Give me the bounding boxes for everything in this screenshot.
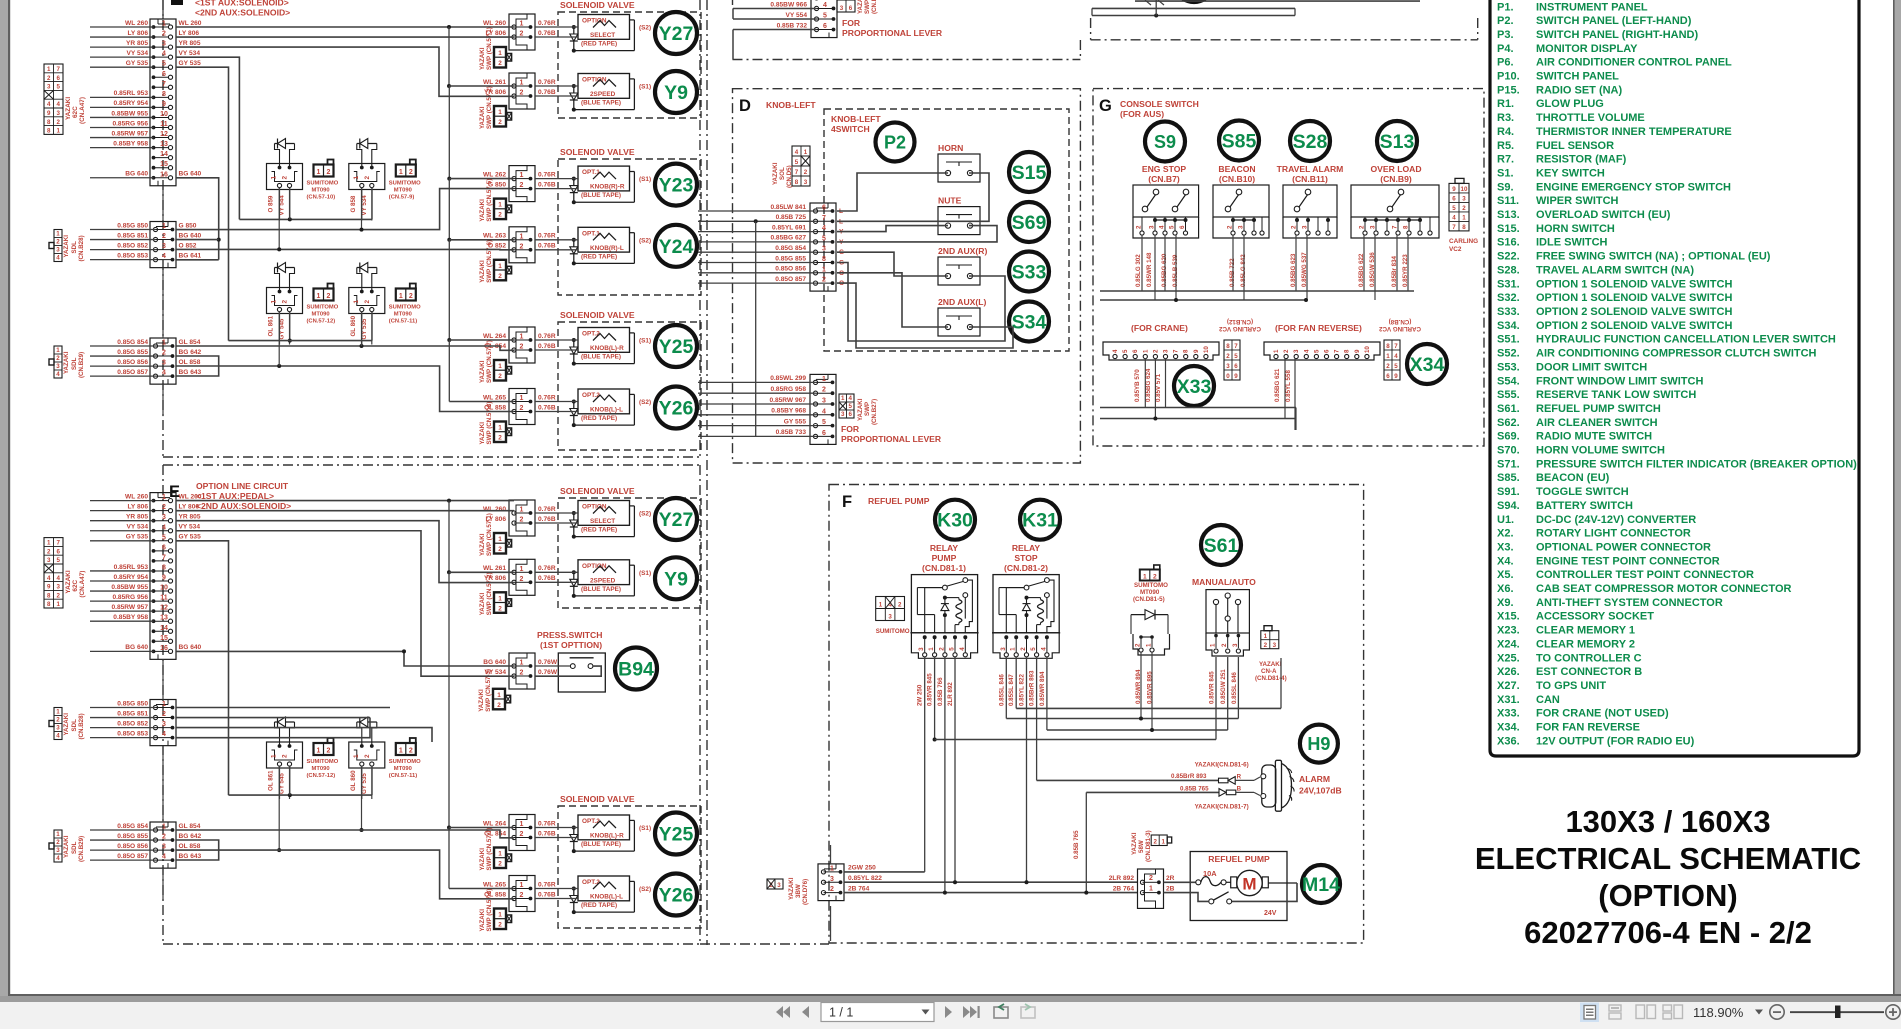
svg-text:B94: B94: [618, 659, 654, 681]
svg-text:1: 1: [56, 709, 60, 716]
svg-text:(CN.D76): (CN.D76): [802, 879, 809, 905]
svg-text:4: 4: [1040, 647, 1047, 651]
svg-text:S33.: S33.: [1497, 306, 1520, 318]
svg-text:2LR 892: 2LR 892: [947, 682, 954, 706]
svg-text:1: 1: [1273, 349, 1280, 353]
svg-text:OVERLOAD SWITCH (EU): OVERLOAD SWITCH (EU): [1536, 209, 1671, 221]
connector strip FOR FAN REVERSE: [1264, 342, 1380, 360]
svg-text:Y24: Y24: [659, 236, 694, 258]
svg-text:WL 263: WL 263: [483, 233, 506, 240]
solenoid valve circle Y9: [655, 71, 697, 113]
svg-text:2: 2: [47, 548, 51, 555]
connector strip FOR CRANE: [1103, 342, 1219, 360]
svg-text:1: 1: [1143, 573, 1147, 580]
relay K30: [911, 575, 977, 633]
svg-text:6: 6: [1324, 349, 1331, 353]
svg-text:1: 1: [520, 566, 524, 573]
svg-text:3: 3: [1273, 642, 1277, 649]
svg-text:7: 7: [57, 540, 61, 547]
knob-left inner dashed box: [824, 109, 1069, 351]
svg-text:Y25: Y25: [659, 336, 694, 358]
wire valve feed Y25: [535, 827, 578, 829]
svg-text:0.76W: 0.76W: [538, 669, 558, 676]
svg-text:YR 805: YR 805: [126, 514, 148, 521]
svg-text:1: 1: [520, 660, 524, 667]
svg-text:KNOB(R)-L: KNOB(R)-L: [590, 245, 624, 252]
svg-text:S51.: S51.: [1497, 334, 1520, 346]
svg-text:0: 0: [1226, 373, 1230, 380]
svg-text:3: 3: [1000, 647, 1007, 651]
svg-text:GY 535: GY 535: [126, 60, 149, 67]
solenoid valve circle Y9: [655, 557, 697, 599]
svg-text:TO GPS UNIT: TO GPS UNIT: [1536, 680, 1606, 692]
svg-text:5: 5: [1452, 205, 1456, 212]
svg-text:5: 5: [849, 403, 853, 410]
svg-text:X5.: X5.: [1497, 569, 1514, 581]
svg-text:5: 5: [1394, 363, 1398, 370]
connector CN.A47 16-pin section E: [150, 493, 176, 660]
svg-text:1: 1: [497, 692, 501, 699]
toolbar nav last-page button: [963, 1006, 970, 1018]
svg-text:0.76R: 0.76R: [538, 20, 556, 27]
svg-text:(RED TAPE): (RED TAPE): [581, 527, 617, 534]
wire bus y730: [1047, 729, 1228, 731]
svg-text:10: 10: [1203, 346, 1210, 353]
svg-text:S69.: S69.: [1497, 431, 1520, 443]
solenoid valve Y27: [578, 15, 630, 40]
svg-text:12V OUTPUT (FOR RADIO EU): 12V OUTPUT (FOR RADIO EU): [1536, 735, 1695, 747]
svg-text:0.85BY 958: 0.85BY 958: [113, 614, 148, 621]
toolbar page number box: [821, 1003, 934, 1022]
svg-text:0.85B 732: 0.85B 732: [777, 22, 808, 29]
svg-text:LY 806: LY 806: [127, 30, 148, 37]
svg-text:1: 1: [162, 21, 166, 28]
svg-text:BEACON: BEACON: [1218, 164, 1255, 174]
yazaki SWP CN.B27 symbol: [839, 394, 854, 418]
svg-text:WL 265: WL 265: [483, 881, 506, 888]
svg-text:S34: S34: [1012, 312, 1047, 334]
wires CN.D5 left: [698, 210, 816, 212]
svg-text:AIR CONDITIONING COMPRESSOR CL: AIR CONDITIONING COMPRESSOR CLUTCH SWITC…: [1536, 348, 1817, 360]
svg-text:1: 1: [162, 223, 166, 230]
wire WL chain E: [448, 572, 450, 827]
svg-text:SWP (CN.57-6): SWP (CN.57-6): [486, 240, 493, 283]
wires top right partial: [1092, 7, 1295, 9]
svg-text:S15.: S15.: [1497, 223, 1520, 235]
svg-text:(BLUE TAPE): (BLUE TAPE): [581, 586, 621, 593]
svg-text:3: 3: [47, 84, 51, 91]
svg-text:4: 4: [959, 647, 966, 651]
switch MANUAL/AUTO S61: [1206, 590, 1249, 633]
svg-text:SWP (CN.57-5): SWP (CN.57-5): [486, 179, 493, 222]
svg-text:3: 3: [822, 246, 826, 253]
svg-text:PRESS.SWITCH: PRESS.SWITCH: [537, 630, 602, 640]
wires CN.D81-5: [1130, 615, 1132, 634]
svg-text:1: 1: [162, 340, 166, 347]
svg-text:0.85O 853: 0.85O 853: [117, 730, 148, 737]
svg-text:SWITCH PANEL: SWITCH PANEL: [1536, 71, 1619, 83]
svg-text:2SPEED: 2SPEED: [590, 91, 616, 98]
circle K30: [935, 500, 975, 540]
svg-text:1: 1: [520, 507, 524, 514]
svg-text:LY 806: LY 806: [179, 30, 200, 37]
top middle partial box: [732, 0, 734, 5]
svg-text:VC2: VC2: [1449, 246, 1462, 253]
sumitomo connector K30: [876, 597, 905, 621]
svg-text:3: 3: [1302, 225, 1309, 229]
svg-text:4: 4: [823, 2, 827, 9]
svg-text:24V: 24V: [1264, 910, 1277, 917]
svg-text:YAZAKI: YAZAKI: [479, 533, 486, 556]
svg-text:2ND AUX(R): 2ND AUX(R): [938, 246, 987, 256]
svg-text:2: 2: [1291, 225, 1298, 229]
svg-text:DC-DC (24V-12V) CONVERTER: DC-DC (24V-12V) CONVERTER: [1536, 514, 1696, 526]
svg-text:6: 6: [162, 544, 166, 551]
svg-text:YAZAKI: YAZAKI: [1131, 832, 1138, 855]
svg-text:GL 860: GL 860: [350, 315, 357, 336]
svg-text:2: 2: [56, 839, 60, 846]
svg-text:YAZAKI: YAZAKI: [772, 162, 779, 185]
svg-text:H9: H9: [1307, 734, 1330, 754]
svg-text:YAZAKI: YAZAKI: [479, 260, 486, 283]
svg-text:0.76R: 0.76R: [538, 233, 556, 240]
svg-text:G 850: G 850: [179, 222, 197, 229]
solenoid valve circle Y26: [655, 387, 697, 429]
svg-text:(CN.D81-4): (CN.D81-4): [1255, 675, 1287, 682]
svg-text:2: 2: [1153, 573, 1157, 580]
svg-text:0.85G 850: 0.85G 850: [117, 700, 148, 707]
svg-text:X25.: X25.: [1497, 652, 1520, 664]
svg-text:TRAVEL ALARM: TRAVEL ALARM: [1277, 164, 1344, 174]
svg-text:G: G: [1099, 97, 1112, 115]
svg-text:YAZAKI: YAZAKI: [63, 835, 70, 858]
svg-text:S61: S61: [1204, 535, 1239, 557]
svg-text:2: 2: [520, 892, 524, 899]
svg-text:SDL: SDL: [71, 841, 78, 854]
svg-text:YAZAKI: YAZAKI: [857, 398, 864, 421]
svg-text:S13.: S13.: [1497, 209, 1520, 221]
svg-text:S28: S28: [1293, 131, 1328, 153]
svg-text:BG 643: BG 643: [179, 369, 202, 376]
svg-text:0.85RW 957: 0.85RW 957: [111, 130, 148, 137]
wire valve feed Y24: [535, 239, 578, 241]
section E outer box: [162, 465, 164, 944]
svg-text:SUMITOMO: SUMITOMO: [389, 759, 421, 765]
svg-text:1: 1: [271, 754, 278, 758]
svg-text:14: 14: [160, 625, 168, 632]
svg-text:FREE SWING SWITCH (NA) ; OPTIO: FREE SWING SWITCH (NA) ; OPTIONAL (EU): [1536, 251, 1771, 263]
svg-text:BATTERY SWITCH: BATTERY SWITCH: [1536, 500, 1633, 512]
wire 2R to fuse: [1164, 881, 1196, 883]
svg-text:STOP: STOP: [1014, 553, 1038, 563]
svg-text:THERMISTOR INNER TEMPERATURE: THERMISTOR INNER TEMPERATURE: [1536, 126, 1732, 138]
svg-text:2: 2: [498, 546, 502, 553]
solenoid valve Y26: [578, 389, 630, 414]
svg-text:OPTION 2 SOLENOID VALVE SWITCH: OPTION 2 SOLENOID VALVE SWITCH: [1536, 306, 1732, 318]
svg-text:(CN.A47): (CN.A47): [79, 571, 86, 598]
svg-text:1: 1: [317, 169, 321, 176]
svg-text:(BLUE TAPE): (BLUE TAPE): [581, 192, 621, 199]
svg-text:BEACON (EU): BEACON (EU): [1536, 472, 1610, 484]
svg-text:2ND AUX(L): 2ND AUX(L): [938, 297, 987, 307]
svg-text:(RED TAPE): (RED TAPE): [581, 253, 617, 260]
connector CN.B27 proportional lever top: [811, 0, 837, 38]
svg-text:6: 6: [1132, 349, 1139, 353]
wire bus y718: [1006, 718, 1238, 720]
svg-text:2: 2: [498, 212, 502, 219]
svg-text:S1.: S1.: [1497, 168, 1514, 180]
console switch block S85: [1213, 185, 1269, 217]
svg-text:X36.: X36.: [1497, 735, 1520, 747]
svg-text:0.76R: 0.76R: [538, 565, 556, 572]
diode CN.D81-5: [1131, 614, 1168, 616]
svg-text:8: 8: [1386, 343, 1390, 350]
svg-text:KNOB-LEFT: KNOB-LEFT: [831, 114, 881, 124]
svg-text:SUMITOMO: SUMITOMO: [307, 759, 339, 765]
svg-text:7: 7: [1234, 343, 1238, 350]
svg-text:1: 1: [353, 176, 360, 180]
svg-text:YR 805: YR 805: [179, 40, 201, 47]
svg-text:SUMITOMO: SUMITOMO: [307, 305, 339, 311]
svg-text:2: 2: [520, 243, 524, 250]
svg-text:SDL: SDL: [71, 357, 78, 370]
svg-text:VY 554: VY 554: [785, 12, 807, 19]
svg-text:0.85G 855: 0.85G 855: [775, 255, 806, 262]
svg-text:58W: 58W: [1138, 840, 1145, 853]
svg-text:2B 764: 2B 764: [1113, 885, 1135, 892]
svg-text:2: 2: [47, 75, 51, 82]
svg-text:LY 806: LY 806: [127, 503, 148, 510]
relay K30 comb: [910, 632, 978, 634]
svg-text:R1.: R1.: [1497, 98, 1514, 110]
svg-text:0.76R: 0.76R: [538, 333, 556, 340]
svg-text:VY 534: VY 534: [179, 50, 201, 57]
connector (CN.57-1): [509, 500, 535, 536]
connector (CN.57-1): [509, 14, 535, 50]
yazaki SWP CN.57-3: [493, 689, 505, 710]
svg-text:2B 764: 2B 764: [848, 885, 870, 892]
svg-text:YAZAKI: YAZAKI: [65, 570, 72, 593]
svg-text:CONTROLLER TEST POINT CONNECTO: CONTROLLER TEST POINT CONNECTOR: [1536, 569, 1754, 581]
yazaki 3BW CN.D76 symbol: [767, 879, 783, 889]
wire relay bus1 C: [239, 218, 372, 220]
svg-text:3: 3: [777, 882, 781, 889]
wire YR805-806 E: [176, 521, 514, 583]
svg-text:0.85WR 148: 0.85WR 148: [1146, 252, 1153, 287]
svg-text:(S1): (S1): [639, 338, 651, 345]
svg-text:10: 10: [160, 111, 168, 118]
svg-text:VY 534: VY 534: [179, 524, 201, 531]
yazaki SWP (CN.57-8): [494, 909, 506, 930]
svg-text:SUMITOMO: SUMITOMO: [307, 181, 339, 187]
svg-text:0.85O 856: 0.85O 856: [117, 359, 148, 366]
yazaki 62C CN.A47 symbol C: [44, 64, 63, 134]
svg-text:0.85O 857: 0.85O 857: [117, 369, 148, 376]
svg-text:0.76B: 0.76B: [538, 89, 556, 96]
toolbar zoom-in button: [1886, 1005, 1900, 1019]
svg-text:X24.: X24.: [1497, 638, 1520, 650]
svg-text:SUMITOMO: SUMITOMO: [876, 628, 910, 635]
svg-text:(CN.B8): (CN.B8): [1389, 318, 1412, 325]
svg-text:0.76R: 0.76R: [538, 171, 556, 178]
switch comb S61: [1206, 633, 1249, 656]
svg-text:2: 2: [498, 435, 502, 442]
connector 2-pin CN.D81 mid: [1138, 869, 1164, 908]
svg-text:0.85RG 956: 0.85RG 956: [112, 120, 148, 127]
connector (CN.57-2): [509, 559, 535, 595]
svg-text:RESERVE TANK LOW SWITCH: RESERVE TANK LOW SWITCH: [1536, 389, 1696, 401]
wire WL260 bus C: [176, 26, 514, 28]
svg-text:1: 1: [879, 602, 883, 609]
svg-text:2: 2: [898, 602, 902, 609]
svg-text:118.90%: 118.90%: [1693, 1005, 1744, 1020]
svg-text:RELAY: RELAY: [1012, 543, 1041, 553]
solenoid valve Y23: [578, 166, 630, 191]
svg-text:0.85O 852: 0.85O 852: [117, 720, 148, 727]
svg-text:4: 4: [162, 524, 166, 531]
svg-text:G 858: G 858: [350, 195, 357, 212]
svg-text:2: 2: [409, 748, 413, 755]
svg-text:7: 7: [1334, 349, 1341, 353]
svg-text:MANUAL/AUTO: MANUAL/AUTO: [1192, 577, 1256, 587]
svg-text:1: 1: [353, 754, 360, 758]
svg-text:(S1): (S1): [639, 176, 651, 183]
wire WL261 E: [448, 501, 450, 573]
svg-text:FOR: FOR: [842, 18, 861, 28]
svg-text:8: 8: [1344, 349, 1351, 353]
svg-text:(CN.B9): (CN.B9): [1380, 174, 1412, 184]
svg-text:HYDRAULIC FUNCTION CANCELLATIO: HYDRAULIC FUNCTION CANCELLATION LEVER SW…: [1536, 334, 1836, 346]
svg-text:5: 5: [57, 84, 61, 91]
svg-text:2: 2: [56, 717, 60, 724]
relay K31: [993, 575, 1059, 633]
svg-text:SWP: SWP: [864, 0, 871, 14]
svg-text:(CN.B27): (CN.B27): [871, 399, 878, 425]
svg-text:1: 1: [1161, 839, 1165, 846]
svg-text:4: 4: [162, 370, 166, 377]
wire bus y708: [1016, 707, 1281, 709]
svg-text:0.85YL 691: 0.85YL 691: [772, 224, 806, 231]
press switch B94: [558, 653, 605, 692]
svg-text:(BLUE TAPE): (BLUE TAPE): [581, 100, 621, 107]
yazaki SWP CN.B27 top symbol: [837, 0, 855, 12]
svg-text:0.85RG 956: 0.85RG 956: [112, 594, 148, 601]
svg-text:YAZAKI: YAZAKI: [479, 106, 486, 129]
svg-text:1: 1: [498, 202, 502, 209]
svg-text:(CN.B29): (CN.B29): [78, 836, 85, 862]
svg-text:1: 1: [804, 149, 808, 156]
svg-text:7: 7: [1394, 343, 1398, 350]
svg-text:YAZAKI: YAZAKI: [857, 0, 864, 14]
yazaki SWP (CN.57-1): [494, 47, 506, 68]
svg-text:(CN.B28): (CN.B28): [78, 713, 85, 739]
yazaki SWP (CN.57-7): [494, 848, 506, 869]
toolbar nav next-page button: [945, 1006, 952, 1018]
svg-text:4: 4: [1159, 225, 1166, 229]
svg-text:AIR CLEANER SWITCH: AIR CLEANER SWITCH: [1536, 417, 1658, 429]
svg-text:5: 5: [1234, 353, 1238, 360]
svg-text:0.85B 766: 0.85B 766: [937, 677, 944, 706]
svg-text:2: 2: [520, 576, 524, 583]
svg-text:7: 7: [162, 81, 166, 88]
solenoid valve circle Y23: [655, 164, 697, 206]
circle S15: [1009, 152, 1049, 192]
wires CN.B27 left: [698, 381, 816, 383]
connector CN.B28 C: [150, 222, 176, 268]
wire relay drops C: [278, 187, 280, 249]
connector (CN.57-8): [509, 389, 535, 425]
wire OL858 E: [176, 850, 514, 899]
svg-text:OPTION 1 SOLENOID VALVE SWITCH: OPTION 1 SOLENOID VALVE SWITCH: [1536, 278, 1732, 290]
svg-text:YAZAKI: YAZAKI: [479, 199, 486, 222]
svg-text:X4.: X4.: [1497, 555, 1514, 567]
crane drop wires: [1144, 358, 1146, 408]
svg-text:3: 3: [1232, 643, 1239, 647]
svg-text:YAZAKI: YAZAKI: [65, 97, 72, 120]
circle X34: [1407, 344, 1447, 384]
svg-text:0.85RG 958: 0.85RG 958: [770, 386, 806, 393]
svg-text:INSTRUMENT PANEL: INSTRUMENT PANEL: [1536, 1, 1648, 13]
svg-text:PRESSURE SWITCH FILTER INDICA: PRESSURE SWITCH FILTER INDICATOR (BREAKE…: [1536, 458, 1857, 470]
wire joins proportional lever top: [732, 8, 734, 19]
svg-text:0.85G 851: 0.85G 851: [117, 232, 148, 239]
connector (CN.57-5): [509, 166, 535, 202]
svg-text:SWP (CN.57-7): SWP (CN.57-7): [486, 828, 493, 871]
svg-text:KNOB(L)-L: KNOB(L)-L: [590, 407, 623, 414]
svg-text:BG 640: BG 640: [179, 232, 202, 239]
svg-text:GL 854: GL 854: [179, 339, 201, 346]
svg-text:0.76B: 0.76B: [538, 404, 556, 411]
svg-text:0.76R: 0.76R: [538, 506, 556, 513]
svg-text:1: 1: [841, 395, 845, 402]
wire valve feed Y26: [535, 888, 578, 890]
svg-text:CAN: CAN: [1536, 694, 1560, 706]
svg-text:1: 1: [317, 293, 321, 300]
svg-text:SUMITOMO: SUMITOMO: [389, 181, 421, 187]
svg-text:Y25: Y25: [659, 824, 694, 846]
svg-text:OPTION 1 SOLENOID VALVE SWITCH: OPTION 1 SOLENOID VALVE SWITCH: [1536, 292, 1732, 304]
svg-text:0.85LW 841: 0.85LW 841: [770, 204, 806, 211]
svg-text:4: 4: [1303, 349, 1310, 353]
svg-text:2: 2: [520, 831, 524, 838]
svg-text:0.85B 733: 0.85B 733: [776, 429, 807, 436]
svg-text:1: 1: [520, 233, 524, 240]
svg-text:P1.: P1.: [1497, 1, 1514, 13]
svg-text:YAZAKI: YAZAKI: [479, 422, 486, 445]
wire O852 C: [176, 248, 514, 250]
svg-text:SDL: SDL: [71, 719, 78, 732]
svg-text:3: 3: [162, 844, 166, 851]
solenoid valve Y25: [578, 328, 630, 353]
svg-text:GL 854: GL 854: [179, 823, 201, 830]
svg-text:SOLENOID VALVE: SOLENOID VALVE: [560, 0, 635, 10]
svg-text:1: 1: [1264, 633, 1268, 640]
toolbar nav first-page button: [776, 1006, 783, 1018]
solenoid valve Y9: [578, 560, 630, 585]
wires relay outputs: [924, 657, 926, 872]
svg-text:2: 2: [498, 922, 502, 929]
svg-text:CLEAR MEMORY 2: CLEAR MEMORY 2: [1536, 638, 1635, 650]
svg-text:PUMP: PUMP: [932, 553, 957, 563]
svg-text:1: 1: [498, 595, 502, 602]
svg-text:R4.: R4.: [1497, 126, 1514, 138]
svg-text:11: 11: [160, 595, 168, 602]
svg-text:TOGGLE SWITCH: TOGGLE SWITCH: [1536, 486, 1629, 498]
svg-text:FOR: FOR: [841, 424, 860, 434]
svg-text:(S1): (S1): [639, 825, 651, 832]
svg-text:X27.: X27.: [1497, 680, 1520, 692]
svg-text:(S2): (S2): [639, 886, 651, 893]
